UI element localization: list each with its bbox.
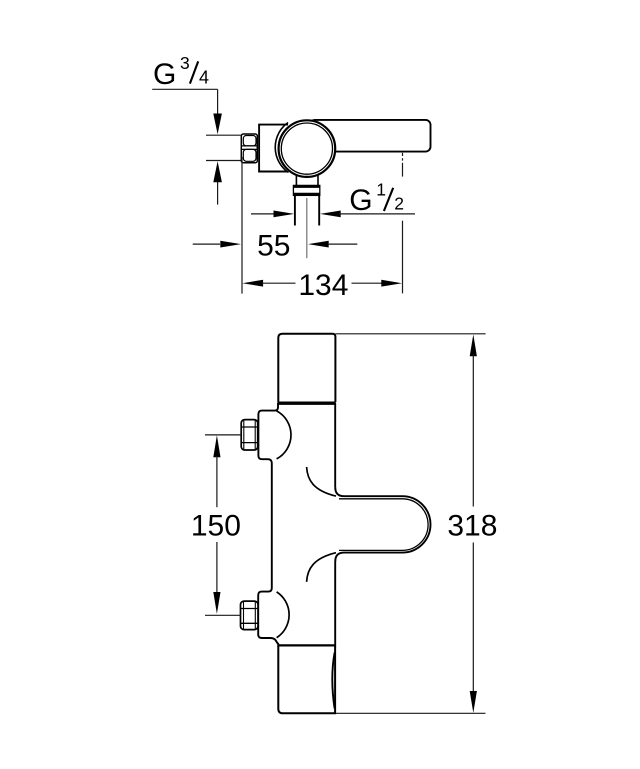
dimension 55	[193, 229, 358, 262]
extension line 318 bottom	[336, 712, 486, 714]
dashed centerline at handle end	[402, 153, 404, 177]
arrow down (G 3/4 dimension, upper)	[213, 114, 222, 135]
extension line nut top	[206, 134, 241, 136]
svg-text:55: 55	[257, 229, 290, 262]
svg-text:150: 150	[191, 510, 241, 543]
svg-text:2: 2	[394, 194, 404, 214]
lever base fillet curve top	[307, 467, 336, 496]
svg-text:3: 3	[180, 53, 190, 73]
dimension 150	[191, 435, 241, 614]
upper hex nut (side view)	[241, 420, 258, 450]
svg-text:4: 4	[199, 68, 209, 88]
lever handle inner line	[339, 499, 428, 551]
hex nut (top view)	[241, 134, 257, 163]
body (side view)	[258, 404, 335, 646]
extension line nut bottom	[206, 160, 241, 162]
extension line 318 top	[336, 333, 486, 335]
lever handle (top view)	[310, 120, 431, 152]
svg-text:G: G	[153, 58, 176, 91]
knob cylinder (side view)	[278, 334, 335, 402]
leader line for G 3/4	[152, 89, 217, 113]
thermostat knob circle (top view)	[279, 120, 336, 177]
outlet collar (top view)	[293, 185, 320, 195]
lower boss cone arc	[277, 592, 290, 638]
G 1/2 dimension right arrow + leader underline	[320, 211, 415, 218]
lower hex nut (side view)	[241, 601, 259, 630]
extension line right (handle end) for 134	[402, 221, 404, 294]
extension line 150 bottom	[205, 614, 241, 616]
thick joint line body/bottom cylinder	[277, 644, 335, 647]
lever base fillet curve bottom	[307, 553, 336, 582]
upper boss cone arc	[277, 411, 291, 459]
svg-text:G: G	[349, 184, 372, 217]
extension line left (body edge) for 55/134	[241, 157, 243, 294]
thick joint line knob/body	[277, 401, 335, 404]
extension line 150 top	[205, 434, 241, 436]
G 1/2 dimension left arrow	[251, 211, 294, 218]
dimension 318	[447, 334, 497, 713]
pipe centerline (gray)	[306, 198, 308, 258]
label G 1/2	[349, 179, 404, 217]
outlet neck (top view)	[296, 175, 318, 186]
svg-text:134: 134	[298, 269, 348, 302]
label G 3/4	[153, 53, 209, 91]
body rectangle (top view)	[259, 125, 306, 172]
bottom cylinder (side view)	[278, 647, 335, 714]
arrow up (G 3/4 dimension, lower)	[213, 161, 222, 204]
body rear arc (top view, rounded body end behind knob)	[275, 123, 288, 173]
lever handle outer outline	[335, 487, 430, 561]
svg-text:1: 1	[376, 179, 386, 199]
lever handle (side view) white cover	[334, 487, 431, 561]
svg-text:318: 318	[447, 509, 497, 542]
dimension 134	[242, 269, 402, 302]
outlet pipe G 1/2 (top view, open end)	[295, 195, 319, 225]
